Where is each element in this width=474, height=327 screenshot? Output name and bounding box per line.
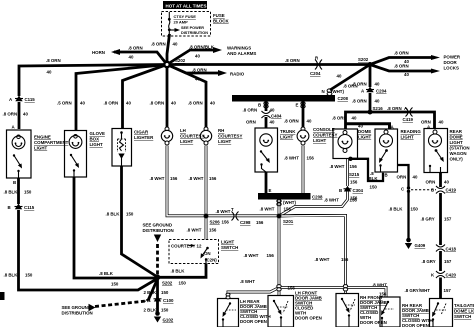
- wire reading light right edge to C419 C pin: [398, 165, 409, 187]
- svg-text:.8 WHT: .8 WHT: [284, 156, 299, 161]
- svg-text:LH: LH: [180, 128, 186, 133]
- wire dome light down to C304 WHT: [346, 159, 349, 187]
- svg-text:S202: S202: [358, 57, 369, 62]
- svg-text:150: 150: [161, 308, 169, 313]
- lamp LH courtesy light: [161, 127, 172, 145]
- svg-text:150: 150: [126, 212, 134, 217]
- svg-text:(WHT): (WHT): [331, 89, 344, 94]
- svg-text:T: T: [231, 207, 234, 212]
- switch rear dome light: [429, 149, 444, 172]
- wire see ground distribution diagonal: [148, 279, 158, 301]
- svg-text:.8 ORN: .8 ORN: [352, 99, 367, 104]
- switch LH front door jamb (dual): [273, 300, 288, 327]
- wire S201 to C304 and dome light WHT: [279, 191, 348, 216]
- svg-text:.8 WHT: .8 WHT: [372, 283, 387, 288]
- svg-text:S216: S216: [373, 106, 384, 111]
- svg-text:ORN: ORN: [426, 180, 436, 185]
- cigar lighter element: [118, 131, 126, 166]
- svg-text:LIGHT: LIGHT: [180, 139, 193, 144]
- svg-text:40: 40: [171, 101, 176, 106]
- svg-text:.8 ORN: .8 ORN: [243, 108, 258, 113]
- svg-text:C418: C418: [446, 247, 457, 252]
- splice S206 junction: [204, 214, 209, 219]
- wire S216 left arm to dome/reading bridge: [346, 112, 371, 129]
- svg-text:B: B: [431, 188, 434, 193]
- svg-text:.8 ORN: .8 ORN: [104, 101, 119, 106]
- svg-text:.8 ORN: .8 ORN: [188, 101, 203, 106]
- C208 upper bus bar: [232, 95, 335, 102]
- svg-text:.8 BLK: .8 BLK: [99, 271, 114, 276]
- svg-text:C304: C304: [353, 188, 364, 193]
- lamp reading light: [380, 130, 393, 147]
- wire rear dome light to C419 B pin: [439, 173, 442, 188]
- edge mark artifact: [0, 292, 5, 300]
- svg-text:B: B: [258, 103, 261, 108]
- svg-text:LIGHT: LIGHT: [280, 135, 293, 140]
- wire S201 down to door switch distribution: [278, 218, 281, 296]
- svg-text:.8 ORN/BLK: .8 ORN/BLK: [189, 45, 215, 50]
- svg-text:157: 157: [444, 259, 452, 264]
- svg-text:S202: S202: [175, 58, 186, 63]
- connector C298 T inline arcs: [232, 212, 239, 221]
- svg-text:.8 WHT: .8 WHT: [150, 176, 165, 181]
- arrow to POWER DOOR LOCKS lower: [431, 69, 440, 74]
- svg-text:40: 40: [375, 82, 380, 87]
- svg-text:.8 GRY: .8 GRY: [421, 217, 435, 222]
- dashed wire see ground distribution bottom: [95, 301, 148, 307]
- svg-text:156: 156: [350, 180, 358, 185]
- see ground distribution bottom arrow: [89, 304, 96, 311]
- svg-text:A4: A4: [145, 298, 151, 303]
- svg-text:.8 ORN: .8 ORN: [151, 42, 166, 47]
- RH rear door jamb switch box: [380, 297, 400, 327]
- svg-text:.8 WHT: .8 WHT: [324, 198, 339, 203]
- svg-text:DISTRIBUTION: DISTRIBUTION: [62, 311, 93, 316]
- connector C204 A triangle: [366, 87, 374, 93]
- svg-text:40: 40: [23, 112, 28, 117]
- switch RH front door jamb (dual): [341, 298, 355, 327]
- svg-text:SEE GROUND: SEE GROUND: [62, 305, 92, 310]
- wire distribution to RH rear door jamb switch WHT: [279, 288, 386, 298]
- svg-text:HORN: HORN: [92, 50, 105, 55]
- svg-text:LIGHT: LIGHT: [90, 142, 103, 147]
- svg-text:150: 150: [24, 190, 32, 195]
- svg-text:POWER: POWER: [444, 55, 461, 60]
- wire LH courtesy light WHT to S206 (double line): [167, 146, 206, 216]
- svg-text:.8 WHT: .8 WHT: [216, 209, 231, 214]
- svg-text:REAR: REAR: [450, 129, 463, 134]
- svg-text:C208: C208: [338, 96, 349, 101]
- connector LH rear entry double circle: [226, 293, 230, 299]
- svg-text:157: 157: [444, 288, 452, 293]
- svg-text:E: E: [296, 103, 299, 108]
- svg-text:40: 40: [270, 120, 275, 125]
- svg-text:ORN: ORN: [397, 175, 407, 180]
- svg-text:150: 150: [411, 207, 419, 212]
- svg-text:40: 40: [173, 42, 178, 47]
- svg-text:.8 ORN: .8 ORN: [3, 112, 18, 117]
- ground G102 symbol: [154, 311, 161, 322]
- wire console courtesy light feed from bus: [302, 101, 305, 127]
- svg-text:S202: S202: [162, 281, 173, 286]
- lamp console courtesy light: [297, 127, 309, 145]
- svg-text:150: 150: [111, 282, 119, 287]
- svg-text:READING: READING: [401, 129, 422, 134]
- svg-text:156: 156: [350, 164, 358, 169]
- svg-text:40: 40: [129, 55, 134, 60]
- svg-text:C420: C420: [446, 273, 457, 278]
- svg-text:157: 157: [444, 217, 452, 222]
- wire distribution to LH rear door jamb switch WHT: [228, 288, 279, 299]
- svg-text:G102: G102: [163, 318, 174, 323]
- svg-text:.8 ORN: .8 ORN: [394, 64, 409, 69]
- svg-text:COURTESY: COURTESY: [313, 133, 337, 138]
- connector trunk pin B double circle: [264, 102, 268, 108]
- wire bridge dome to reading light: [346, 124, 390, 129]
- svg-text:40: 40: [80, 101, 85, 106]
- splice S201 junction: [277, 214, 282, 219]
- svg-text:12: 12: [197, 244, 202, 249]
- connector lower bus output double circle: [277, 199, 281, 205]
- wire S202 right down to C204 A: [369, 65, 372, 88]
- svg-text:(C2N): (C2N): [205, 258, 217, 263]
- lamp RH courtesy light: [200, 127, 211, 145]
- svg-text:40: 40: [444, 180, 449, 185]
- wire warnings and alarms feed: [167, 50, 215, 65]
- wire RH courtesy light feed: [167, 65, 206, 128]
- wire C419 B to C418: [439, 193, 442, 245]
- dashed link C419 C to B: [411, 189, 436, 191]
- RH front door jamb switch box: [336, 294, 359, 327]
- svg-text:COURTESY: COURTESY: [218, 134, 242, 139]
- lamp glove box light: [69, 135, 82, 149]
- connector C208 feed double circle: [327, 89, 332, 96]
- svg-text:TAILGATE: TAILGATE: [454, 303, 474, 308]
- LH rear door jamb switch box: [218, 299, 239, 327]
- arrow to WARNINGS AND ALARMS: [213, 47, 222, 53]
- ground splice junction: [155, 275, 161, 281]
- svg-text:DOOR OPEN: DOOR OPEN: [360, 320, 387, 325]
- connector distribution row double circles at RH front: [343, 285, 347, 291]
- splice S216 junction: [368, 110, 373, 115]
- svg-text:.8 WHT: .8 WHT: [315, 257, 330, 262]
- wire engine light ground to S202 ground splice: [19, 210, 158, 290]
- svg-text:LIGHT: LIGHT: [34, 146, 47, 151]
- svg-text:40: 40: [413, 175, 418, 180]
- svg-text:C115: C115: [24, 205, 35, 210]
- svg-text:40: 40: [439, 120, 444, 125]
- svg-text:150: 150: [370, 185, 378, 190]
- wire S206 to S201 horizontal WHT: [206, 214, 279, 217]
- connector C115 B triangle: [15, 204, 23, 210]
- svg-text:B: B: [339, 188, 342, 193]
- svg-text:40: 40: [126, 101, 131, 106]
- connector C420 K inline arcs: [436, 271, 445, 278]
- wire trunk light to lower bus: [265, 172, 268, 193]
- lamp trunk light: [260, 134, 272, 146]
- splice S202 center junction: [164, 62, 169, 67]
- svg-text:TRUNK: TRUNK: [280, 129, 296, 134]
- svg-text:DOME LIGHT: DOME LIGHT: [454, 309, 474, 314]
- svg-text:40: 40: [337, 74, 342, 79]
- svg-text:LIGHT: LIGHT: [358, 135, 371, 140]
- svg-text:COMPARTMENT: COMPARTMENT: [34, 140, 69, 145]
- wire RH courtesy light WHT down to S206: [205, 146, 208, 217]
- trunk light box: [255, 128, 278, 172]
- svg-text:B: B: [8, 205, 11, 210]
- svg-text:HOT AT ALL TIMES: HOT AT ALL TIMES: [166, 3, 208, 9]
- svg-text:20 AMP: 20 AMP: [174, 20, 189, 25]
- svg-text:DISTRIBUTION: DISTRIBUTION: [143, 228, 174, 233]
- svg-text:156: 156: [307, 156, 315, 161]
- wire S206 down to light switch: [205, 216, 208, 240]
- svg-text:ENGINE: ENGINE: [34, 135, 51, 140]
- svg-text:COURTESY: COURTESY: [171, 244, 195, 249]
- svg-text:DOOR OPEN: DOOR OPEN: [402, 323, 429, 327]
- splice S215 dot: [348, 157, 352, 161]
- svg-text:RH: RH: [218, 128, 224, 133]
- svg-text:.5 ORN: .5 ORN: [57, 101, 72, 106]
- svg-text:.8 BLK: .8 BLK: [4, 190, 19, 195]
- wire S216 right arm to rear dome light: [370, 112, 435, 129]
- svg-text:RADIO: RADIO: [230, 72, 245, 77]
- wire fuse output to splice S202: [167, 34, 170, 63]
- svg-text:.8 WHT: .8 WHT: [189, 176, 204, 181]
- lamp engine compartment light: [12, 135, 25, 149]
- wire glove box light feed: [76, 65, 167, 131]
- wire glove box light ground: [74, 177, 155, 278]
- svg-text:.8 ORN: .8 ORN: [150, 101, 165, 106]
- svg-text:BLOCK: BLOCK: [213, 19, 229, 24]
- svg-text:.8 ORN: .8 ORN: [387, 106, 402, 111]
- wire light switch to ground splice: [158, 264, 207, 278]
- svg-text:156: 156: [209, 176, 217, 181]
- see ground distribution middle arrow: [154, 235, 161, 243]
- lamp rear dome light: [429, 130, 442, 147]
- svg-text:(STATION: (STATION: [450, 146, 470, 151]
- svg-text:S201: S201: [283, 219, 294, 224]
- switch trunk light: [260, 150, 270, 172]
- wire right feed to splice S202 right: [167, 63, 368, 66]
- svg-text:C298: C298: [240, 220, 251, 225]
- connector C419 C pin circles: [407, 186, 410, 193]
- svg-text:CTSY FUSE: CTSY FUSE: [174, 14, 197, 19]
- wire S202 right to C208 bus bar: [330, 65, 370, 91]
- dashed wire see ground distribution middle: [156, 244, 159, 275]
- wire horn feed: [114, 52, 167, 65]
- svg-text:150: 150: [161, 290, 169, 295]
- switch glove box light: [70, 154, 79, 177]
- svg-text:GLOVE: GLOVE: [90, 131, 105, 136]
- svg-text:156: 156: [256, 220, 264, 225]
- svg-text:BLK: BLK: [369, 176, 379, 181]
- splice S202 right junction: [368, 62, 373, 67]
- wire C420 to tailgate dome light switch: [439, 278, 442, 299]
- svg-text:CONSOLE: CONSOLE: [313, 127, 335, 132]
- svg-text:ORN: ORN: [246, 120, 256, 125]
- svg-text:N: N: [322, 89, 325, 94]
- svg-text:C204: C204: [376, 89, 387, 94]
- tailgate dome light switch box: [430, 299, 453, 327]
- svg-text:DOME: DOME: [450, 135, 463, 140]
- svg-text:40: 40: [195, 54, 200, 59]
- fuse block dashed box: [162, 12, 211, 37]
- switch LH rear door jamb: [222, 302, 236, 327]
- wire power door locks upper: [370, 58, 432, 65]
- svg-text:COURTESY: COURTESY: [180, 134, 204, 139]
- svg-text:DOOR OPEN: DOOR OPEN: [240, 319, 267, 324]
- svg-text:.8 ORN: .8 ORN: [284, 119, 299, 124]
- svg-text:.8 BLK: .8 BLK: [106, 212, 121, 217]
- svg-text:ONLY): ONLY): [450, 157, 464, 162]
- svg-text:LIGHT: LIGHT: [313, 138, 326, 143]
- svg-text:C204: C204: [310, 71, 321, 76]
- svg-text:40: 40: [375, 99, 380, 104]
- connector C204 R inline arcs: [315, 60, 322, 70]
- svg-text:B: B: [385, 173, 388, 178]
- rear dome light box: [424, 129, 448, 173]
- svg-text:C419: C419: [446, 188, 457, 193]
- svg-text:.8 ORN: .8 ORN: [352, 82, 367, 87]
- svg-text:CIGAR: CIGAR: [134, 130, 149, 135]
- svg-text:.8 ORN: .8 ORN: [46, 58, 61, 63]
- svg-text:DISTRIBUTION: DISTRIBUTION: [181, 31, 208, 35]
- wire trunk/console lower bus output to S201: [278, 200, 281, 217]
- svg-text:40: 40: [307, 119, 312, 124]
- svg-text:.8 GRY: .8 GRY: [422, 259, 436, 264]
- svg-text:.8 ORN: .8 ORN: [394, 51, 409, 56]
- connector C100 A4 triangle: [154, 296, 162, 302]
- connector console pin E double circle: [301, 102, 305, 108]
- switch tailgate dome light: [432, 302, 446, 327]
- connector C115 A triangle: [15, 96, 23, 102]
- svg-text:.8 BLK: .8 BLK: [389, 207, 404, 212]
- wire C204 A down to S216: [369, 93, 372, 112]
- svg-text:.8 WHT: .8 WHT: [187, 228, 202, 233]
- svg-text:.8 ORN: .8 ORN: [332, 116, 347, 121]
- fuse see power distribution arrow: [171, 29, 176, 31]
- svg-text:.8 WHT: .8 WHT: [260, 207, 275, 212]
- arrow to POWER DOOR LOCKS upper: [431, 55, 440, 60]
- switch RH rear door jamb: [381, 301, 394, 327]
- svg-text:2 BLK: 2 BLK: [144, 308, 158, 313]
- svg-text:156: 156: [222, 220, 230, 225]
- glove box light box: [65, 131, 87, 178]
- connector C404 inline arcs: [262, 111, 271, 118]
- svg-text:40: 40: [210, 101, 215, 106]
- svg-text:DOOR: DOOR: [444, 60, 458, 65]
- wire C419 C pin to ground G409: [407, 193, 409, 239]
- svg-text:E: E: [269, 188, 272, 193]
- svg-text:B: B: [13, 180, 16, 185]
- svg-text:.8 ORN: .8 ORN: [128, 46, 143, 51]
- svg-text:SEE POWER: SEE POWER: [181, 26, 204, 30]
- HOT AT ALL TIMES box: [163, 1, 207, 9]
- wire trunk light feed from bus: [265, 101, 268, 111]
- switch engine compartment light: [13, 154, 22, 178]
- arrow to HORN: [111, 49, 120, 55]
- svg-text:.8 WHT: .8 WHT: [240, 279, 255, 284]
- svg-text:2 BLK: 2 BLK: [144, 290, 158, 295]
- svg-text:WARNINGS: WARNINGS: [227, 46, 251, 51]
- wire left feed to engine compartment light: [19, 65, 167, 97]
- C208 lower bus bar: [258, 193, 311, 200]
- svg-text:ON: ON: [204, 251, 211, 256]
- svg-text:.8 WHT: .8 WHT: [244, 253, 259, 258]
- wire radio feed: [167, 65, 220, 74]
- svg-text:LIGHT: LIGHT: [218, 139, 231, 144]
- connector C419 A inline arcs: [406, 108, 413, 117]
- wire engine light to C115 lower: [17, 178, 20, 204]
- wire LH courtesy light feed: [166, 65, 169, 128]
- cigar lighter box: [112, 129, 132, 167]
- svg-text:40: 40: [47, 70, 52, 75]
- svg-text:40: 40: [270, 108, 275, 113]
- light switch dashed box: [169, 240, 219, 264]
- svg-text:DOOR OPEN: DOOR OPEN: [295, 316, 322, 321]
- svg-text:156: 156: [284, 207, 292, 212]
- svg-text:LIGHTER: LIGHTER: [134, 135, 154, 140]
- svg-text:.8 WHT: .8 WHT: [330, 164, 345, 169]
- svg-text:C419: C419: [403, 117, 414, 122]
- switch reading light: [379, 149, 388, 176]
- svg-text:LOCKS: LOCKS: [444, 66, 459, 71]
- svg-text:DOME: DOME: [358, 129, 371, 134]
- svg-text:156: 156: [170, 176, 178, 181]
- svg-text:40: 40: [195, 77, 200, 82]
- arrow to RADIO: [218, 70, 227, 76]
- connector C418 inline arcs: [436, 245, 445, 252]
- wire cigar lighter ground: [122, 166, 158, 277]
- svg-text:SWITCH: SWITCH: [221, 245, 238, 250]
- wire ground splice down to G102: [156, 277, 159, 313]
- svg-text:AND ALARMS: AND ALARMS: [227, 51, 256, 56]
- connector C304 B triangle: [344, 186, 352, 192]
- wire power door locks lower: [370, 65, 432, 72]
- wire trunk light C404 to box: [265, 117, 268, 128]
- wire S201 to RH front door jamb switch WHT: [279, 216, 346, 294]
- svg-text:156: 156: [350, 196, 358, 201]
- svg-text:156: 156: [209, 228, 217, 233]
- LH front door jamb switch box: [268, 296, 294, 327]
- reading light box: [375, 129, 398, 172]
- svg-text:LIGHT: LIGHT: [221, 240, 234, 245]
- svg-text:G409: G409: [415, 243, 426, 248]
- lamp dome light: [338, 131, 352, 153]
- svg-text:.8 BLK: .8 BLK: [4, 273, 19, 278]
- svg-text:SWITCH: SWITCH: [454, 314, 471, 319]
- svg-text:40: 40: [404, 72, 409, 77]
- wire C418 to C420: [439, 251, 442, 271]
- svg-text:.8 ORN: .8 ORN: [285, 58, 300, 63]
- svg-text:C208: C208: [312, 195, 323, 200]
- svg-text:BOX: BOX: [90, 137, 100, 142]
- svg-text:SEE GROUND: SEE GROUND: [143, 223, 173, 228]
- svg-text:.8 GRY/WHT: .8 GRY/WHT: [405, 288, 431, 293]
- fuse CTSY FUSE symbol: [168, 12, 171, 36]
- wire console courtesy WHT down to lower bus: [302, 146, 305, 194]
- svg-text:40: 40: [358, 124, 363, 129]
- wire reading light BLK jumper to S215: [351, 159, 384, 181]
- connector C419 B inline arcs: [436, 186, 445, 194]
- svg-text:S206: S206: [210, 220, 221, 225]
- svg-text:WAGON: WAGON: [450, 151, 467, 156]
- switch light switch interior: [189, 244, 209, 264]
- wire engine light C115 to box: [18, 102, 21, 129]
- svg-text:S215: S215: [349, 172, 360, 177]
- svg-text:40: 40: [352, 116, 357, 121]
- ground G409 symbol: [405, 238, 412, 249]
